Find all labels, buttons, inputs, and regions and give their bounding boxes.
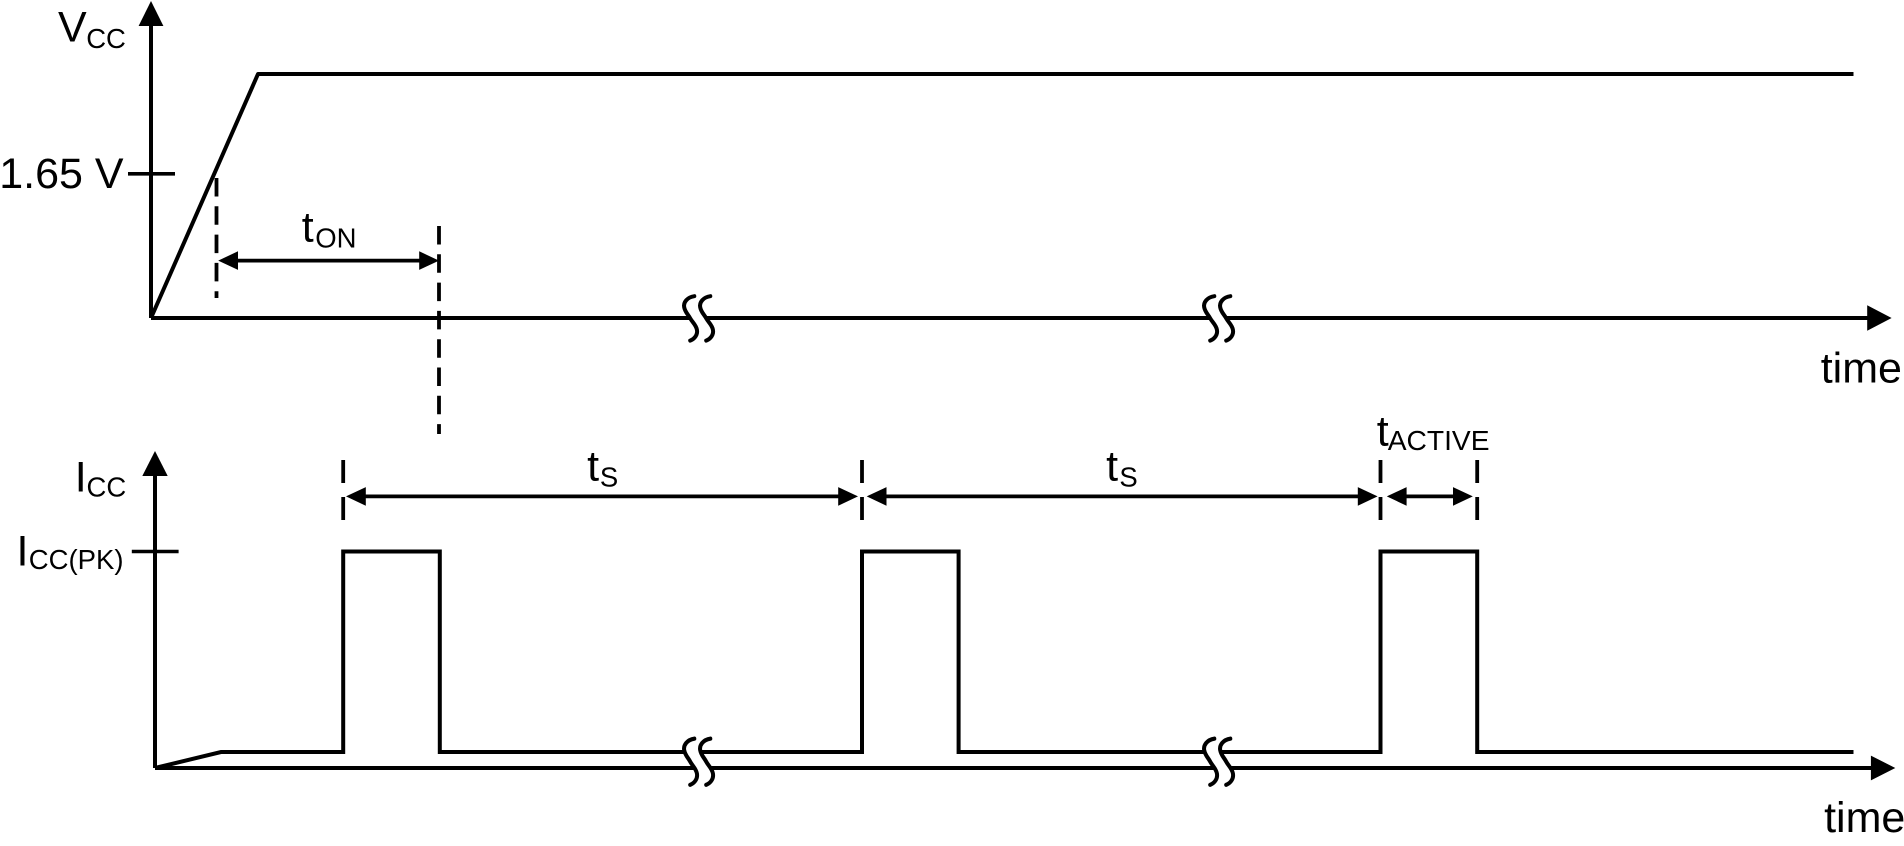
svg-text:time: time bbox=[1824, 794, 1904, 842]
svg-text:CC: CC bbox=[86, 23, 126, 54]
svg-text:S: S bbox=[1119, 461, 1137, 492]
svg-text:time: time bbox=[1821, 345, 1902, 393]
svg-text:ON: ON bbox=[315, 223, 356, 254]
svg-text:t: t bbox=[1106, 443, 1118, 491]
svg-text:S: S bbox=[600, 461, 618, 492]
svg-text:CC(PK): CC(PK) bbox=[29, 544, 124, 575]
svg-text:V: V bbox=[58, 4, 87, 52]
svg-text:CC: CC bbox=[87, 471, 127, 502]
svg-text:1.65 V: 1.65 V bbox=[0, 150, 124, 198]
svg-text:I: I bbox=[75, 454, 87, 502]
svg-text:I: I bbox=[17, 527, 29, 575]
svg-text:t: t bbox=[302, 204, 314, 252]
svg-text:t: t bbox=[587, 443, 599, 491]
svg-text:ACTIVE: ACTIVE bbox=[1388, 424, 1490, 456]
